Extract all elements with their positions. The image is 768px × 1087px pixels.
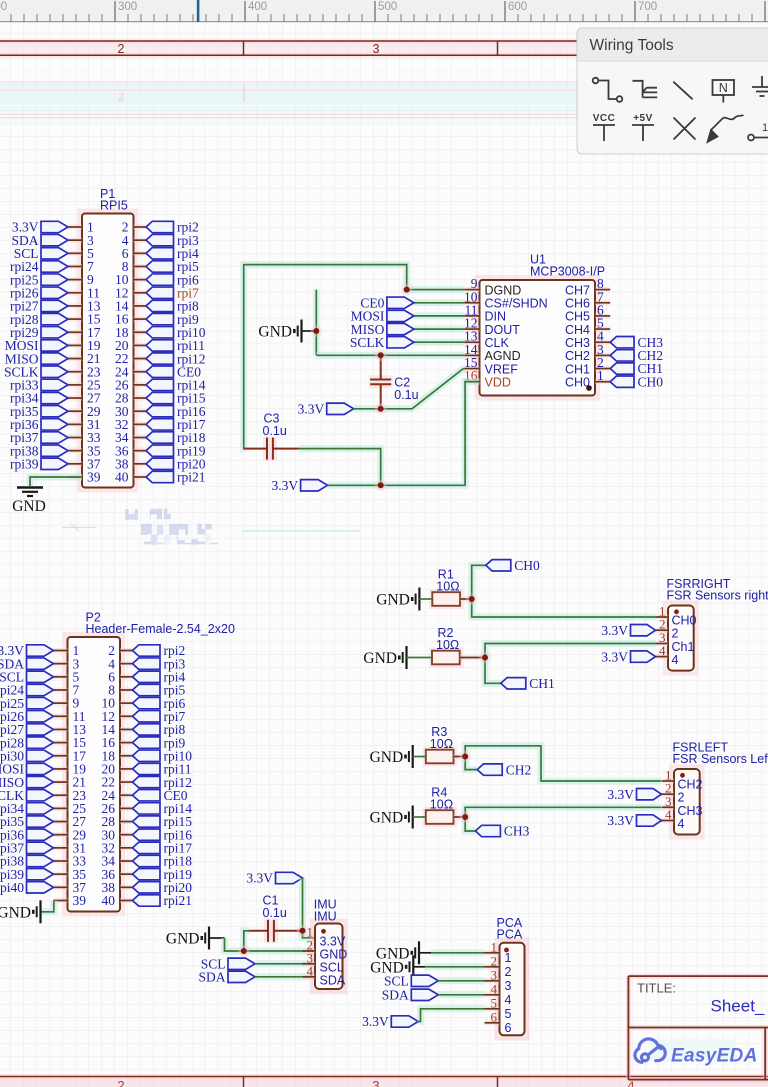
net flag rpi25 (pin 9) — [27, 697, 54, 708]
P1 pin 21 — [68, 356, 82, 361]
sheet border bottom — [0, 1078, 768, 1087]
junction C1 left / GND — [238, 945, 250, 957]
wire DGND net (pin9 to C3) — [244, 265, 465, 449]
svg-text:CS#/SHDN: CS#/SHDN — [485, 297, 548, 311]
net flag rpi37 (pin 31) — [27, 842, 54, 853]
svg-text:4: 4 — [491, 981, 498, 996]
svg-text:GND: GND — [166, 931, 200, 948]
P1 pin 13 — [68, 303, 82, 308]
P2 pin 18 — [120, 753, 133, 758]
svg-text:DOUT: DOUT — [485, 323, 521, 337]
P2 pin 13 — [54, 727, 68, 732]
net flag rpi10 (pin 18) — [146, 327, 174, 338]
connector P1 body — [79, 211, 137, 491]
svg-text:Wiring Tools: Wiring Tools — [590, 37, 674, 54]
svg-text:DGND: DGND — [485, 283, 522, 297]
PCA pin 3 — [485, 978, 500, 983]
wire C1 left leg — [244, 931, 250, 951]
P1 pin 30 — [134, 409, 147, 414]
net flag rpi7 (pin 12) — [146, 287, 174, 298]
net flag 3.3V (pin 1) — [27, 645, 54, 656]
net flag CH2 — [477, 764, 502, 775]
sheet border top — [0, 42, 768, 55]
net flag rpi17 (pin 32) — [133, 842, 161, 853]
svg-text:VDD: VDD — [485, 376, 511, 390]
svg-text:5: 5 — [505, 1007, 512, 1021]
P1 pin 4 — [134, 238, 147, 243]
wire GND to IMU pin2 — [225, 938, 316, 951]
svg-text:Header-Female-2.54_2x20: Header-Female-2.54_2x20 — [86, 622, 235, 636]
P2 pin 22 — [120, 780, 133, 785]
P1 pin 31 — [68, 422, 82, 427]
U1 pin 2 CH1 — [595, 366, 610, 371]
svg-text:5: 5 — [491, 995, 498, 1010]
P2 pin 24 — [120, 793, 133, 798]
junction R1 — [466, 593, 478, 605]
FSRLEFT pin 3 — [662, 805, 675, 810]
P1 pin 34 — [134, 435, 147, 440]
net flag CH1 — [501, 678, 526, 689]
svg-text:3.3V: 3.3V — [271, 478, 298, 493]
P2 pin 26 — [120, 806, 133, 811]
svg-text:FSR Sensors right: FSR Sensors right — [667, 588, 768, 602]
U1 pin 3 CH2 — [595, 353, 610, 358]
P2 pin 28 — [120, 819, 133, 824]
P2 pin 5 — [54, 674, 68, 679]
net flag rpi9 (pin 16) — [133, 737, 161, 748]
net flag rpi40 (pin 37) — [27, 882, 54, 893]
svg-text:PCA: PCA — [497, 928, 523, 942]
P1 pin 25 — [68, 382, 82, 387]
svg-text:3: 3 — [491, 967, 498, 982]
P2 pin 27 — [54, 819, 68, 824]
net flag CH3 — [475, 825, 500, 836]
net flag MOSI (pin 19) — [41, 340, 68, 351]
net flag rpi26 (pin 11) — [27, 711, 54, 722]
svg-text:39: 39 — [73, 893, 87, 908]
net flag rpi9 (pin 16) — [146, 313, 174, 324]
svg-text:3.3V: 3.3V — [320, 934, 346, 948]
net flag rpi10 (pin 18) — [133, 750, 161, 761]
wire SDA to IMU pin4 — [255, 973, 315, 980]
svg-text:3.3V: 3.3V — [298, 402, 325, 417]
P1 pin 3 — [68, 238, 82, 243]
wire GND to R4 — [413, 816, 426, 818]
svg-text:CLK: CLK — [485, 336, 510, 350]
net flag rpi30 (pin 17) — [27, 750, 54, 761]
svg-text:3.3V: 3.3V — [362, 1014, 389, 1029]
net flag rpi11 (pin 20) — [146, 340, 174, 351]
svg-text:0.1u: 0.1u — [394, 388, 418, 402]
U1 pin 10 CS#/SHDN — [464, 300, 479, 305]
svg-text:CH4: CH4 — [565, 323, 590, 337]
power flag 3.3V PCA — [391, 1016, 418, 1027]
svg-text:CH3: CH3 — [565, 336, 590, 350]
svg-text:2: 2 — [118, 42, 125, 56]
connector IMU body — [312, 921, 346, 993]
PCA pin 2 — [485, 964, 500, 969]
net flag rpi20 (pin 38) — [133, 882, 161, 893]
svg-text:40: 40 — [102, 893, 116, 908]
U1 pin 11 DIN — [464, 313, 479, 318]
U1 pin 9 DGND — [464, 287, 479, 292]
net flag rpi3 (pin 4) — [146, 234, 174, 245]
svg-text:Ch1: Ch1 — [672, 640, 695, 654]
IMU pin 4 SDA — [303, 974, 316, 979]
net flag rpi39 (pin 35) — [27, 868, 54, 879]
capacitor C3 — [263, 437, 277, 461]
wire 3.3V to PCA pin5 — [418, 1009, 484, 1022]
P2 pin 33 — [54, 859, 68, 864]
ground flag PCA pin2 — [406, 955, 413, 978]
P1 pin 28 — [134, 396, 147, 401]
P1 pin 7 — [68, 264, 82, 269]
svg-text:500: 500 — [378, 1, 397, 13]
P2 pin 1 — [54, 648, 68, 653]
net flag rpi36 (pin 31) — [41, 419, 68, 430]
wire R3 to FSRLEFT pin1 — [465, 746, 661, 781]
svg-text:4: 4 — [678, 817, 685, 831]
power flag 3.3V FSRRIGHT pin4 — [631, 651, 656, 662]
net flag rpi28 (pin 15) — [41, 313, 68, 324]
ground flag PCA pin1 — [412, 941, 419, 964]
P2 pin 25 — [54, 806, 68, 811]
net flag CH3 at U1 — [610, 337, 634, 348]
U1 pin 6 CH5 — [595, 313, 610, 318]
svg-text:GND: GND — [363, 650, 397, 667]
PCA pin 4 — [485, 992, 500, 997]
svg-text:CH3: CH3 — [678, 804, 703, 818]
svg-text:GND: GND — [258, 324, 292, 341]
svg-text:2: 2 — [118, 90, 124, 104]
U1 pin 14 AGND — [464, 353, 479, 358]
svg-text:CH2: CH2 — [506, 762, 532, 777]
FSRLEFT pin 2 — [662, 792, 675, 797]
U1 pin 12 DOUT — [464, 327, 479, 332]
P1 pin 27 — [68, 396, 82, 401]
svg-text:VCC: VCC — [593, 113, 616, 124]
junction DGND — [401, 284, 413, 296]
svg-text:CH1: CH1 — [529, 676, 555, 691]
pin tool icon — [748, 135, 768, 141]
P2 pin 15 — [54, 740, 68, 745]
svg-text:EasyEDA: EasyEDA — [671, 1046, 758, 1067]
wire GND to R1 — [419, 598, 432, 600]
svg-text:4: 4 — [672, 653, 679, 667]
capacitor C1 — [264, 919, 278, 943]
FSRRIGHT pin 4 — [656, 654, 669, 659]
EasyEDA logo — [650, 1039, 735, 1061]
net flag rpi6 (pin 10) — [146, 274, 174, 285]
net flag rpi3 (pin 4) — [133, 658, 161, 669]
wire MOSI — [414, 312, 464, 319]
net flag rpi16 (pin 30) — [146, 405, 174, 416]
wire R2 to FSRRIGHT pin3 — [485, 644, 656, 658]
svg-text:GND: GND — [370, 749, 404, 766]
junction R3 — [459, 751, 471, 763]
svg-text:0.1u: 0.1u — [263, 906, 287, 920]
net flag rpi5 (pin 8) — [146, 261, 174, 272]
P2 pin 40 — [120, 898, 133, 903]
P1 pin 24 — [134, 369, 147, 374]
net flag rpi17 (pin 32) — [146, 419, 174, 430]
P2 pin 30 — [120, 832, 133, 837]
svg-text:1: 1 — [505, 951, 512, 965]
P2 pin 16 — [120, 740, 133, 745]
net flag CE0 (pin 24) — [133, 790, 161, 801]
P1 pin 11 — [68, 290, 82, 295]
P2 pin 20 — [120, 766, 133, 771]
svg-text:4: 4 — [659, 643, 666, 658]
wire P1 pin39 to GND — [30, 477, 82, 486]
ground flag R3 — [406, 745, 413, 768]
net flag rpi26 (pin 11) — [41, 287, 68, 298]
svg-text:SDA: SDA — [320, 973, 346, 987]
FSRRIGHT pin 2 — [656, 628, 669, 633]
svg-text:CH7: CH7 — [565, 283, 590, 297]
net flag rpi21 (pin 40) — [146, 471, 174, 482]
svg-text:rpi40: rpi40 — [0, 880, 24, 895]
P2 pin 39 — [54, 898, 68, 903]
ghost selection band — [0, 83, 577, 91]
net flag rpi21 (pin 40) — [133, 895, 161, 906]
P1 pin 16 — [134, 317, 147, 322]
net flag rpi39 (pin 37) — [41, 458, 68, 469]
PCA pin 6 — [485, 1020, 500, 1025]
connector P2 body — [65, 634, 124, 915]
svg-text:SDA: SDA — [382, 988, 409, 1003]
P2 pin 8 — [120, 687, 133, 692]
net flag SCL at IMU — [228, 958, 255, 969]
svg-text:CH0: CH0 — [514, 558, 540, 573]
junction C2 top — [375, 350, 387, 362]
wire CE0 — [414, 299, 464, 306]
ground flag R1 — [412, 588, 419, 611]
svg-text:4: 4 — [307, 963, 314, 978]
svg-text:RPI5: RPI5 — [100, 199, 128, 213]
P1 pin 2 — [134, 225, 147, 230]
net flag rpi4 (pin 6) — [146, 248, 174, 259]
IMU pin 2 GND — [303, 949, 316, 954]
net flag rpi18 (pin 34) — [146, 432, 174, 443]
P1 pin 19 — [68, 343, 82, 348]
P2 pin 23 — [54, 793, 68, 798]
svg-text:+5V: +5V — [633, 113, 653, 124]
svg-text:3.3V: 3.3V — [246, 871, 273, 886]
P2 pin 31 — [54, 845, 68, 850]
ground flag R4 — [406, 806, 413, 829]
net flag rpi8 (pin 14) — [146, 300, 174, 311]
P2 pin 37 — [54, 885, 68, 890]
svg-text:400: 400 — [248, 1, 267, 13]
P1 pin 9 — [68, 277, 82, 282]
net flag rpi28 (pin 15) — [27, 737, 54, 748]
svg-text:700: 700 — [638, 1, 657, 13]
net flag MOSI (pin 19) — [27, 763, 54, 774]
line tool icon — [673, 82, 692, 100]
ground symbol below P1 — [17, 488, 43, 497]
P1 pin 8 — [134, 264, 147, 269]
svg-text:4: 4 — [505, 993, 512, 1007]
svg-text:AGND: AGND — [485, 349, 521, 363]
net flag rpi12 (pin 22) — [146, 353, 174, 364]
no-connect tool icon — [674, 118, 696, 140]
wire SCLK — [414, 339, 464, 346]
wire C3 to 3.3V net — [299, 449, 381, 486]
junction C2 bottom — [375, 403, 387, 415]
ground flag C1 — [202, 927, 209, 950]
FSRRIGHT pin1 marker dot — [674, 609, 679, 614]
wire AGND net (to pin14) — [316, 352, 464, 359]
svg-text:0.1u: 0.1u — [263, 424, 287, 438]
wire 3.3V to VDD — [328, 382, 480, 486]
svg-text:CH5: CH5 — [565, 310, 590, 324]
P1 pin 23 — [68, 369, 82, 374]
ground tool icon — [752, 76, 768, 96]
net flag rpi14 (pin 26) — [146, 379, 174, 390]
junction C1 right — [297, 925, 309, 937]
svg-text:SCL: SCL — [320, 960, 344, 974]
U1 pin 7 CH6 — [595, 300, 610, 305]
junction R2 — [479, 652, 491, 664]
svg-text:CH6: CH6 — [565, 297, 590, 311]
net flag rpi35 (pin 29) — [41, 405, 68, 416]
P1 pin 29 — [68, 409, 82, 414]
P2 pin 3 — [54, 661, 68, 666]
svg-text:3: 3 — [505, 979, 512, 993]
U1 pin 8 CH7 — [595, 287, 610, 292]
wire GND to R3 — [413, 756, 426, 758]
P1 pin 39 — [68, 474, 82, 479]
net flag rpi38 (pin 35) — [41, 445, 68, 456]
svg-text:3: 3 — [372, 1078, 379, 1087]
svg-text:SCL: SCL — [384, 974, 409, 989]
IMU pin 3 SCL — [303, 961, 316, 966]
svg-text:rpi39: rpi39 — [10, 457, 39, 472]
svg-text:SDA: SDA — [198, 970, 225, 985]
svg-text:GND: GND — [370, 810, 404, 827]
FSRLEFT pin 4 — [662, 818, 675, 823]
U1 pin 5 CH4 — [595, 327, 610, 332]
wire R1 to CH0 flag — [472, 565, 486, 599]
Wiring Tools panel — [577, 28, 768, 154]
net flag rpi7 (pin 12) — [133, 711, 161, 722]
power flag 3.3V IMU — [276, 872, 303, 883]
net flag rpi12 (pin 22) — [133, 776, 161, 787]
junction 3.3V bottom — [375, 480, 387, 492]
P1 pin 40 — [134, 474, 147, 479]
net flag rpi37 (pin 33) — [41, 432, 68, 443]
wire MISO — [414, 326, 464, 333]
svg-text:39: 39 — [87, 470, 101, 485]
wire GND vertical — [313, 290, 320, 356]
svg-text:CH1: CH1 — [565, 362, 590, 376]
resistor R2 — [429, 648, 463, 668]
FSRLEFT pin 1 — [662, 779, 675, 784]
net flag SCLK (pin 23) — [41, 366, 68, 377]
title block — [628, 976, 768, 1080]
svg-text:CH3: CH3 — [504, 824, 530, 839]
net flag CH0 — [486, 560, 511, 571]
net flag rpi33 (pin 25) — [41, 379, 68, 390]
svg-text:200: 200 — [0, 1, 7, 13]
P1 pin 5 — [68, 251, 82, 256]
svg-text:6: 6 — [491, 1009, 498, 1024]
P2 pin 10 — [120, 701, 133, 706]
wire SCL to IMU pin3 — [255, 960, 315, 967]
svg-text:2: 2 — [678, 791, 685, 805]
svg-text:10Ω: 10Ω — [430, 737, 453, 751]
net flag rpi2 (pin 2) — [146, 221, 174, 232]
U1 pin 1 CH0 — [595, 379, 610, 384]
svg-text:6: 6 — [505, 1021, 512, 1035]
U1 pin1 marker dot — [586, 385, 592, 391]
P2 pin 2 — [120, 648, 133, 653]
svg-text:rpi21: rpi21 — [177, 470, 206, 485]
ghost marks — [122, 508, 219, 545]
net flag rpi6 (pin 10) — [133, 697, 161, 708]
wire GND to PCA pin1 — [431, 949, 485, 956]
P1 pin 1 — [68, 225, 82, 230]
ruler — [0, 0, 768, 22]
U1 pin 15 VREF — [464, 366, 479, 371]
power flag 3.3V (VREF) — [327, 403, 354, 414]
net flag SCL (pin 5) — [27, 671, 54, 682]
wire 3.3V to IMU pin1 — [303, 878, 316, 938]
svg-text:10Ω: 10Ω — [436, 638, 459, 652]
P1 pin 10 — [134, 277, 147, 282]
resistor R3 — [423, 747, 457, 767]
svg-text:▂▓▁▒▕▃▁▄▂▒▁: ▂▓▁▒▕▃▁▄▂▒▁ — [143, 533, 219, 545]
net flag rpi19 (pin 36) — [133, 868, 161, 879]
net flag rpi18 (pin 34) — [133, 855, 161, 866]
resistor R4 — [423, 807, 457, 827]
U1 pin 16 VDD — [464, 379, 479, 384]
net flag rpi24 (pin 7) — [27, 684, 54, 695]
connector PCA body — [497, 940, 528, 1039]
wire R1 to FSRRIGHT pin1 — [472, 599, 656, 617]
net flag rpi36 (pin 29) — [27, 829, 54, 840]
net flag rpi27 (pin 13) — [27, 724, 54, 735]
svg-text:3.3V: 3.3V — [601, 623, 628, 638]
net flag rpi5 (pin 8) — [133, 684, 161, 695]
svg-text:CH2: CH2 — [565, 349, 590, 363]
wire 3.3V to VREF diagonal — [354, 368, 465, 408]
P2 pin 29 — [54, 832, 68, 837]
PCA pin 5 — [485, 1006, 500, 1011]
svg-text:2: 2 — [672, 627, 679, 641]
net flag rpi38 (pin 33) — [27, 855, 54, 866]
wire GND to R2 — [407, 657, 433, 659]
svg-text:SCLK: SCLK — [350, 335, 385, 350]
U1 pin 4 CH3 — [595, 340, 610, 345]
net flag CH2 at U1 — [610, 350, 634, 361]
IMU pin1 marker dot — [321, 929, 326, 934]
resistor R1 — [429, 589, 463, 609]
connector FSRLEFT body — [671, 766, 703, 838]
svg-text:2: 2 — [491, 953, 498, 968]
ground flag U1 — [294, 320, 301, 343]
net flag rpi19 (pin 36) — [146, 445, 174, 456]
P2 pin 11 — [54, 714, 68, 719]
capacitor C2 — [369, 376, 393, 389]
svg-text:GND: GND — [12, 498, 46, 515]
P1 pin 20 — [134, 343, 147, 348]
P1 pin 22 — [134, 356, 147, 361]
net flag SDA at PCA — [411, 989, 438, 1000]
svg-text:DIN: DIN — [485, 310, 507, 324]
wire SCL to PCA pin3 — [438, 977, 484, 984]
